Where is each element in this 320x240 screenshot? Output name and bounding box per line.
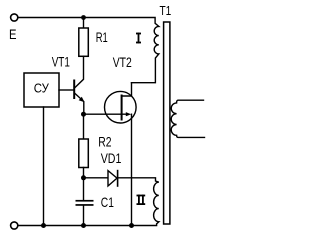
wire CY bottom to ground rail [43,107,45,226]
block CY control unit [24,73,59,107]
svg-text:СУ: СУ [34,81,50,96]
svg-text:VT1: VT1 [52,55,70,70]
resistor R2 [79,139,89,168]
node junction R1 top [81,15,86,20]
transistor VT1 emitter with arrow [75,94,84,115]
terminal ground [11,222,18,229]
node junction VT1 emitter [81,112,86,117]
svg-text:VT2: VT2 [113,55,132,70]
wire node to VT2 base [86,113,126,115]
svg-text:T1: T1 [160,4,172,18]
diode VD1 [108,171,117,186]
capacitor C1 top wire [83,180,85,200]
svg-text:C1: C1 [101,195,114,210]
label winding II [137,195,146,205]
transistor VT2 collector [122,83,132,96]
wire node to VD1 [86,177,108,179]
wire node down to R2 [83,116,85,139]
svg-text:R1: R1 [96,30,108,45]
transistor VT1 base bar [73,81,75,99]
terminal E [11,14,18,21]
svg-text:VD1: VD1 [101,151,122,166]
label winding I [136,33,141,44]
node junction C1 ground [81,223,86,228]
transformer T1 secondary winding [171,100,204,137]
capacitor C1 [76,200,94,202]
wire top rail into winding I of T1 [18,18,159,83]
node junction CY ground [41,223,46,228]
wire R1 top [83,18,85,29]
wire VD1 cathode to winding II of T1 [18,178,159,226]
svg-text:E: E [9,27,17,42]
capacitor C1 bottom wire [83,206,85,226]
node junction winding II return [129,223,134,228]
transformer T1 core [164,22,170,224]
wire VT2 emitter down to rail [131,114,133,225]
transistor VT2 base bar [121,96,123,120]
resistor R1 [79,28,89,56]
wire R1 bottom to VT1 collector [75,56,84,87]
wire CY to VT1 base [59,89,73,91]
wire R2 bottom [83,168,85,178]
svg-text:R2: R2 [98,134,111,149]
transistor VT2 emitter arrow [126,112,131,116]
transistor VT2 circle [105,91,137,123]
node junction diode anode [81,175,86,180]
